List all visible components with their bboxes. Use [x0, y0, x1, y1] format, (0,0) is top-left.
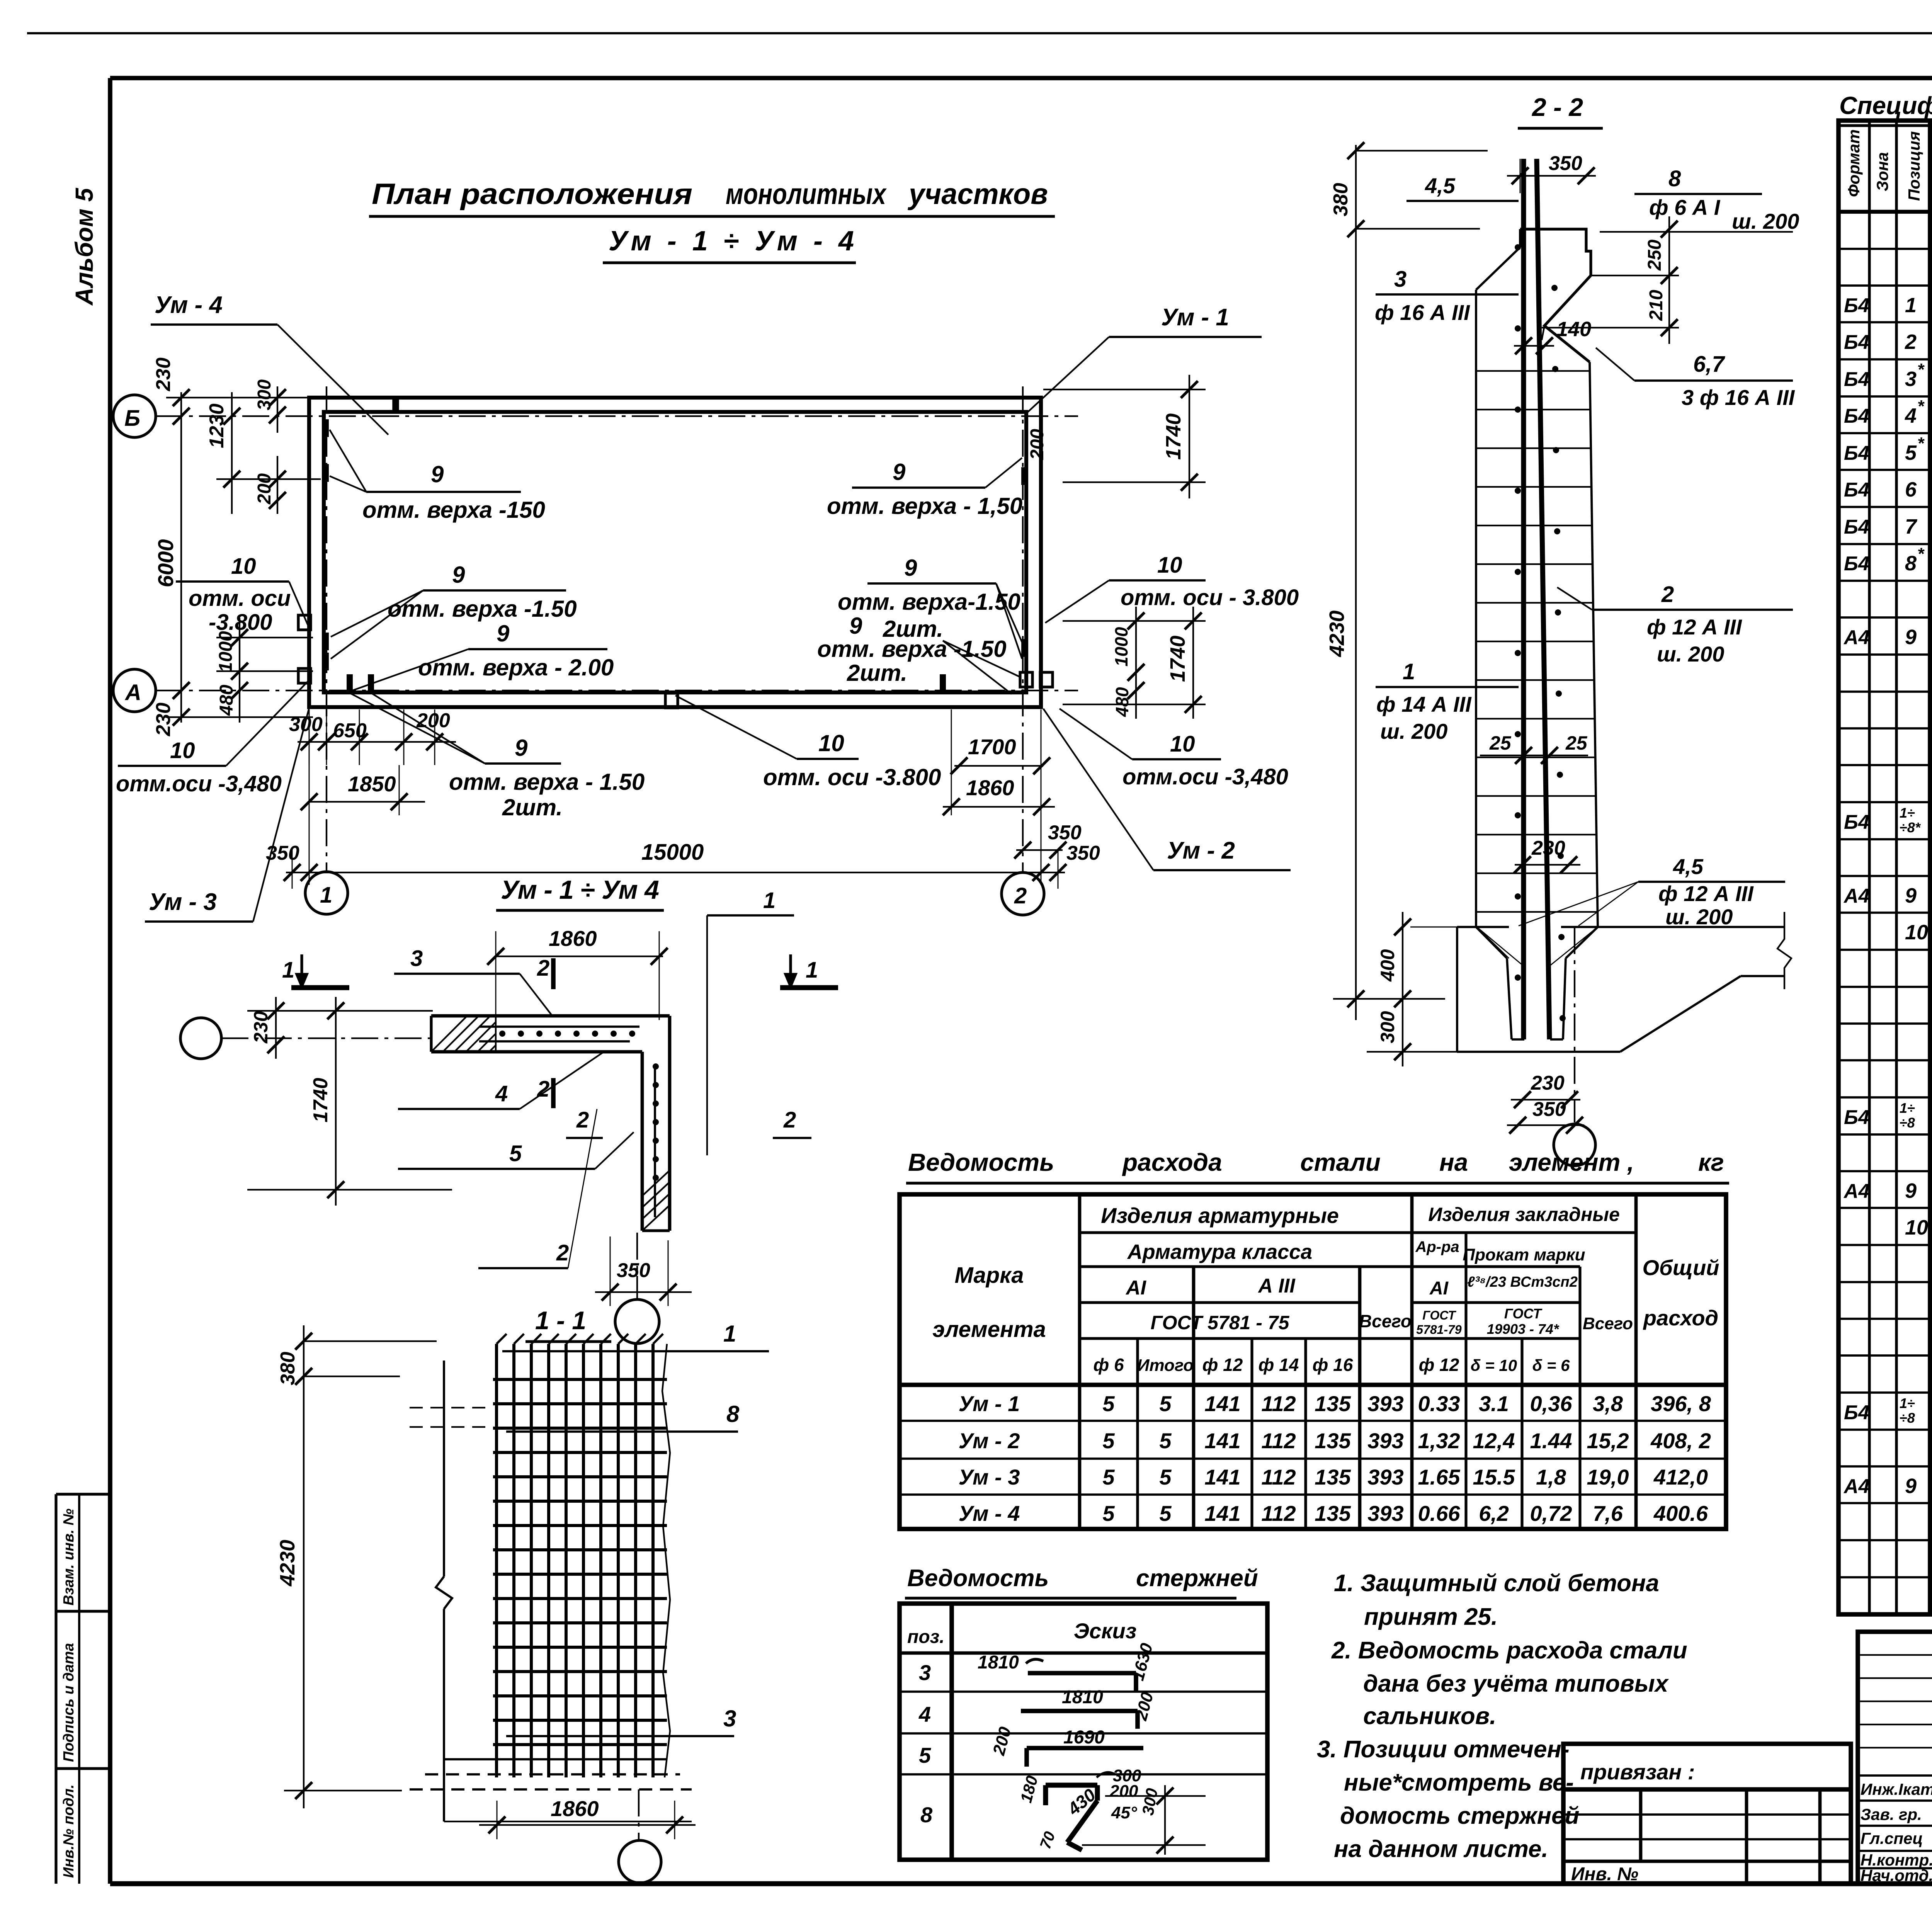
svg-text:Позиция: Позиция	[1905, 131, 1923, 201]
svg-text:9: 9	[849, 613, 862, 639]
svg-text:8: 8	[1668, 166, 1681, 191]
spec table frame	[1838, 121, 1932, 1614]
svg-text:2: 2	[576, 1107, 589, 1133]
svg-text:участков: участков	[907, 178, 1048, 211]
svg-text:Гл.спец: Гл.спец	[1861, 1829, 1923, 1847]
svg-text:ш. 200: ш. 200	[1732, 209, 1799, 233]
svg-text:400: 400	[1377, 949, 1398, 982]
svg-text:210: 210	[1646, 290, 1667, 321]
notes text	[1317, 1570, 1687, 1862]
svg-text:6: 6	[1905, 478, 1917, 501]
svg-text:3: 3	[723, 1706, 736, 1731]
s22 wall outline	[1476, 229, 1598, 927]
svg-text:230: 230	[152, 357, 175, 391]
svg-text:Формат: Формат	[1845, 129, 1863, 197]
svg-text:4: 4	[918, 1702, 931, 1726]
svg-text:ф 12 А III: ф 12 А III	[1647, 615, 1742, 639]
svg-text:Инв. №: Инв. №	[1571, 1864, 1638, 1884]
svg-text:1: 1	[282, 957, 294, 983]
svg-text:Нач.отд.: Нач.отд.	[1861, 1866, 1932, 1884]
svg-text:ГОСТ 5781 - 75: ГОСТ 5781 - 75	[1151, 1312, 1290, 1333]
svg-text:Всего: Всего	[1583, 1314, 1633, 1333]
svg-text:1230: 1230	[206, 403, 228, 448]
detail corner line 1 top right	[707, 914, 794, 917]
svg-text:Ум - 2: Ум - 2	[959, 1429, 1020, 1453]
svg-text:1: 1	[1905, 294, 1917, 317]
svg-text:141: 141	[1204, 1429, 1240, 1453]
svg-text:9: 9	[515, 735, 528, 761]
svg-text:Б: Б	[124, 406, 140, 431]
svg-text:141: 141	[1204, 1501, 1240, 1526]
svg-text:3.1: 3.1	[1479, 1391, 1509, 1416]
svg-text:на: на	[1439, 1148, 1468, 1176]
svg-text:План расположения: План расположения	[372, 178, 692, 211]
svg-text:3 ф 16 А III: 3 ф 16 А III	[1682, 385, 1795, 410]
svg-text:6000: 6000	[153, 539, 178, 587]
svg-text:ш. 200: ш. 200	[1657, 642, 1724, 666]
steel table frame	[900, 1194, 1726, 1529]
svg-text:отм. верха - 1.50: отм. верха - 1.50	[449, 769, 645, 795]
svg-text:1: 1	[806, 957, 818, 983]
detail axis circle	[180, 1018, 221, 1059]
svg-text:393: 393	[1367, 1391, 1403, 1416]
svg-text:принят 25.: принят 25.	[1364, 1604, 1498, 1630]
svg-text:А4: А4	[1843, 885, 1870, 907]
svg-text:ГОСТ: ГОСТ	[1422, 1308, 1456, 1322]
corner rebar marks	[323, 419, 329, 437]
svg-text:А4: А4	[1843, 1180, 1870, 1202]
svg-text:расход: расход	[1643, 1306, 1718, 1330]
svg-text:1.65: 1.65	[1418, 1465, 1461, 1489]
svg-text:Альбом 5: Альбом 5	[70, 187, 98, 306]
svg-text:10: 10	[231, 554, 256, 579]
svg-text:Инв.№ подл.: Инв.№ подл.	[61, 1784, 77, 1878]
svg-text:А4: А4	[1843, 1475, 1870, 1498]
svg-text:Подпись и дата: Подпись и дата	[61, 1643, 77, 1762]
embedded part marks	[298, 615, 311, 630]
detail dim 1740	[335, 997, 337, 1206]
svg-text:393: 393	[1367, 1501, 1403, 1526]
svg-text:2шт.: 2шт.	[847, 660, 907, 686]
plan inner wall rectangle	[324, 412, 1026, 692]
svg-text:1÷: 1÷	[1900, 1395, 1915, 1411]
svg-text:1. Защитный слой бетона: 1. Защитный слой бетона	[1334, 1570, 1659, 1597]
s11 bottom circle	[619, 1840, 661, 1883]
svg-text:дана без учёта типовых: дана без учёта типовых	[1363, 1670, 1669, 1697]
svg-text:15000: 15000	[641, 840, 704, 865]
svg-text:Марка: Марка	[954, 1263, 1024, 1288]
svg-text:ные*смотреть ве-: ные*смотреть ве-	[1344, 1769, 1574, 1796]
plan section cut mark on top wall	[392, 396, 399, 413]
axis line Б	[156, 415, 1078, 417]
s11 bottom lines	[410, 1759, 692, 1821]
svg-text:Эскиз: Эскиз	[1074, 1619, 1137, 1643]
svg-text:ш. 200: ш. 200	[1665, 905, 1733, 929]
svg-text:÷8*: ÷8*	[1900, 820, 1921, 835]
spec table verticals	[1869, 121, 1932, 1614]
svg-text:отм. верха -1.50: отм. верха -1.50	[388, 596, 577, 622]
svg-text:300: 300	[254, 379, 275, 410]
s22 horizontal bars	[1477, 371, 1597, 912]
svg-text:отм. верха - 1,50: отм. верха - 1,50	[827, 493, 1022, 519]
svg-text:3: 3	[919, 1660, 931, 1685]
svg-text:9: 9	[497, 621, 510, 646]
s11 label 1	[502, 1350, 769, 1352]
svg-text:2. Ведомость расхода с: 2. Ведомость расхода стали	[1331, 1637, 1687, 1664]
svg-text:Б4: Б4	[1844, 1106, 1869, 1129]
s11 dashed lines left	[410, 1407, 493, 1408]
svg-text:Ум - 1: Ум - 1	[1161, 304, 1229, 331]
svg-text:ГОСТ: ГОСТ	[1504, 1306, 1543, 1321]
svg-text:Ведомость: Ведомость	[908, 1148, 1054, 1176]
svg-text:112: 112	[1261, 1501, 1296, 1526]
svg-text:кг: кг	[1698, 1148, 1724, 1176]
svg-text:141: 141	[1204, 1391, 1240, 1416]
svg-text:стержней: стержней	[1136, 1565, 1258, 1592]
svg-text:Ведомость: Ведомость	[907, 1565, 1049, 1592]
svg-text:7: 7	[1905, 515, 1918, 538]
svg-text:1 - 1: 1 - 1	[535, 1306, 586, 1335]
privyazan box	[1563, 1744, 1851, 1884]
svg-text:4: 4	[495, 1081, 508, 1106]
svg-text:112: 112	[1261, 1465, 1296, 1489]
svg-text:домость стержней: домость стержней	[1340, 1803, 1579, 1829]
svg-text:Ум - 4: Ум - 4	[155, 292, 223, 318]
svg-text:1: 1	[723, 1321, 736, 1347]
s11 label 8	[506, 1430, 738, 1433]
svg-text:Прокат марки: Прокат марки	[1463, 1245, 1585, 1264]
svg-text:2: 2	[783, 1107, 796, 1133]
s11 mesh ragged right edge	[662, 1344, 670, 1777]
svg-text:Ум - 3: Ум - 3	[149, 889, 217, 915]
svg-text:350: 350	[1048, 821, 1082, 844]
svg-text:140: 140	[1556, 318, 1591, 341]
svg-text:1÷: 1÷	[1900, 805, 1915, 821]
svg-text:5: 5	[1159, 1429, 1172, 1453]
svg-text:1,8: 1,8	[1536, 1465, 1566, 1489]
svg-text:300: 300	[1377, 1011, 1398, 1043]
svg-text:8: 8	[920, 1803, 933, 1827]
svg-text:10: 10	[170, 738, 195, 763]
svg-text:1.44: 1.44	[1530, 1429, 1572, 1453]
axis bubble 1	[305, 872, 348, 914]
s22 rebar dots	[1515, 244, 1521, 250]
svg-text:5: 5	[509, 1141, 522, 1166]
svg-text:АI: АI	[1125, 1277, 1147, 1299]
s22 dims 400 300	[1367, 912, 1457, 1066]
svg-text:5: 5	[1102, 1501, 1115, 1526]
svg-text:1700: 1700	[968, 735, 1016, 759]
svg-text:1860: 1860	[551, 1796, 599, 1821]
svg-text:230: 230	[250, 1011, 272, 1044]
svg-text:монолитных: монолитных	[726, 178, 887, 211]
svg-text:25: 25	[1489, 732, 1512, 754]
detail dim 230	[275, 997, 277, 1059]
svg-text:380: 380	[1330, 183, 1352, 216]
svg-text:δ = 10: δ = 10	[1471, 1356, 1517, 1374]
svg-text:А4: А4	[1843, 626, 1870, 649]
svg-text:*: *	[1917, 397, 1925, 416]
axis line 2	[1022, 386, 1024, 872]
svg-text:9: 9	[1905, 884, 1917, 907]
detail section mark 1 left	[282, 954, 349, 988]
svg-text:Зона: Зона	[1873, 152, 1891, 191]
svg-text:350: 350	[1066, 842, 1100, 864]
svg-text:4,5: 4,5	[1425, 173, 1456, 198]
svg-text:Ум - 1 ÷ Ум - 4: Ум - 1 ÷ Ум - 4	[609, 226, 854, 257]
svg-text:отм. оси -3.800: отм. оси -3.800	[763, 764, 941, 790]
svg-text:2: 2	[1661, 582, 1674, 607]
s11 label 3	[506, 1735, 734, 1737]
svg-text:45°: 45°	[1111, 1803, 1137, 1822]
svg-text:393: 393	[1367, 1429, 1403, 1453]
s11 left dim	[276, 1325, 437, 1808]
axis line 1	[326, 386, 327, 872]
s11 dim 1860	[479, 1824, 696, 1826]
s22 left dim line	[1325, 142, 1488, 1020]
svg-text:6,2: 6,2	[1479, 1501, 1509, 1526]
svg-text:Зав. гр.: Зав. гр.	[1861, 1805, 1922, 1823]
svg-text:1÷: 1÷	[1900, 1100, 1915, 1116]
svg-text:Инж.Iкат: Инж.Iкат	[1861, 1780, 1932, 1798]
svg-text:15.5: 15.5	[1473, 1465, 1515, 1489]
svg-text:элемента: элемента	[932, 1317, 1046, 1342]
svg-text:9: 9	[1905, 1179, 1917, 1202]
svg-text:2шт.: 2шт.	[502, 794, 563, 820]
right dim 1740 lower	[1063, 607, 1206, 719]
detail dim 1860	[496, 956, 663, 957]
bottom dim cluster left	[289, 709, 456, 815]
svg-text:отм. верха-1.50: отм. верха-1.50	[838, 589, 1020, 615]
svg-text:8: 8	[1905, 552, 1917, 575]
svg-text:141: 141	[1204, 1465, 1240, 1489]
svg-text:10: 10	[818, 730, 844, 756]
svg-text:стали: стали	[1300, 1148, 1381, 1176]
right dim 1740 upper	[1027, 375, 1206, 498]
svg-text:7,6: 7,6	[1593, 1501, 1623, 1526]
svg-text:412,0: 412,0	[1653, 1465, 1708, 1489]
svg-text:135: 135	[1315, 1391, 1351, 1416]
svg-text:отм. оси: отм. оси	[189, 586, 291, 611]
svg-text:19,0: 19,0	[1587, 1465, 1629, 1489]
axis bubble Б	[113, 395, 156, 437]
title block frame	[1858, 1632, 1932, 1884]
svg-text:8: 8	[726, 1401, 740, 1427]
svg-text:5: 5	[1159, 1391, 1172, 1416]
title block names	[1861, 1780, 1932, 1885]
svg-text:1740: 1740	[310, 1078, 332, 1122]
svg-text:1860: 1860	[549, 926, 597, 951]
s11 wall edge line with break	[436, 1361, 452, 1821]
svg-text:6,7: 6,7	[1693, 352, 1725, 377]
svg-text:230: 230	[1531, 837, 1565, 859]
s11 mesh	[493, 1334, 667, 1777]
s22 dim 250 210	[1542, 216, 1679, 344]
svg-text:4: 4	[1905, 404, 1917, 427]
svg-text:ф 12: ф 12	[1202, 1355, 1243, 1375]
svg-text:элемент ,: элемент ,	[1509, 1148, 1634, 1176]
svg-text:10: 10	[1905, 1216, 1928, 1239]
svg-text:3: 3	[410, 946, 423, 971]
svg-text:200: 200	[254, 473, 275, 505]
svg-text:200: 200	[1109, 1782, 1138, 1801]
svg-text:ф 6: ф 6	[1093, 1355, 1124, 1375]
svg-text:поз.: поз.	[907, 1627, 944, 1647]
left margin stamp column	[56, 1494, 110, 1884]
svg-text:112: 112	[1261, 1429, 1296, 1453]
svg-text:350: 350	[1549, 152, 1582, 175]
svg-text:135: 135	[1315, 1465, 1351, 1489]
svg-text:230: 230	[1531, 1072, 1565, 1094]
detail hatch bottom end	[642, 1170, 670, 1231]
detail wall horizontal strip	[431, 1016, 670, 1052]
svg-text:9: 9	[904, 555, 917, 581]
svg-text:Изделия закладные: Изделия закладные	[1428, 1204, 1620, 1225]
svg-text:ш. 200: ш. 200	[1380, 719, 1447, 743]
s22 centerline	[1574, 927, 1575, 1122]
detail bottom section circle	[615, 1299, 659, 1344]
svg-text:300: 300	[289, 713, 323, 736]
svg-text:400.6: 400.6	[1653, 1501, 1708, 1526]
svg-text:Итого: Итого	[1137, 1356, 1194, 1375]
detail hatch left end	[431, 1016, 496, 1052]
svg-text:10: 10	[1170, 731, 1195, 757]
svg-text:расхода: расхода	[1122, 1148, 1222, 1176]
svg-text:4230: 4230	[1325, 611, 1349, 657]
steel table verticals	[1080, 1194, 1636, 1529]
spec table header	[1838, 129, 1932, 212]
svg-text:Б4: Б4	[1844, 331, 1869, 354]
svg-text:112: 112	[1261, 1391, 1296, 1416]
left dim chain	[152, 357, 321, 736]
outer border top	[27, 32, 1932, 34]
svg-text:5: 5	[1102, 1465, 1115, 1489]
svg-text:380: 380	[277, 1352, 299, 1385]
detail rebar dots	[499, 1031, 505, 1037]
svg-text:19903 - 74*: 19903 - 74*	[1487, 1321, 1560, 1337]
svg-text:1,32: 1,32	[1418, 1429, 1460, 1453]
bottom dim cluster right	[943, 709, 1082, 859]
svg-text:отм.оси -3,480: отм.оси -3,480	[1122, 764, 1288, 789]
svg-text:ф 16 А III: ф 16 А III	[1375, 300, 1470, 325]
axis bubble 2	[1002, 872, 1044, 915]
svg-text:200: 200	[416, 709, 450, 732]
svg-text:480: 480	[1112, 687, 1132, 717]
svg-text:2: 2	[537, 956, 549, 981]
svg-text:Б4: Б4	[1844, 294, 1869, 317]
svg-text:Всего: Всего	[1359, 1311, 1412, 1331]
svg-text:5: 5	[1102, 1391, 1115, 1416]
svg-text:1: 1	[320, 883, 332, 908]
svg-text:10: 10	[1157, 553, 1182, 578]
svg-text:1740: 1740	[1166, 636, 1189, 682]
svg-text:2: 2	[1905, 330, 1917, 354]
svg-text:25: 25	[1565, 732, 1588, 754]
svg-text:9: 9	[1905, 626, 1917, 649]
spec table row lines	[1838, 249, 1932, 1577]
svg-text:÷8: ÷8	[1900, 1410, 1915, 1426]
svg-text:ф 14: ф 14	[1259, 1355, 1299, 1375]
axis bubble А	[113, 669, 156, 712]
svg-text:1: 1	[1403, 659, 1415, 684]
svg-text:Б4: Б4	[1844, 1401, 1869, 1424]
svg-text:*: *	[1917, 434, 1925, 453]
svg-text:230: 230	[152, 702, 175, 736]
svg-text:9: 9	[893, 459, 906, 485]
svg-text:Ар-ра: Ар-ра	[1415, 1238, 1459, 1255]
detail section mark 1 right	[780, 954, 838, 988]
s22 footing	[1457, 912, 1791, 1052]
svg-text:5: 5	[1905, 441, 1917, 464]
svg-text:135: 135	[1315, 1429, 1351, 1453]
svg-text:Б4: Б4	[1844, 479, 1869, 501]
svg-text:Б4: Б4	[1844, 405, 1869, 427]
svg-text:0,72: 0,72	[1530, 1501, 1572, 1526]
svg-text:3. Позиции отмечен-: 3. Позиции отмечен-	[1317, 1736, 1570, 1763]
svg-text:Ум - 3: Ум - 3	[959, 1465, 1020, 1489]
svg-text:Общий: Общий	[1642, 1255, 1719, 1280]
svg-text:на данном листе.: на данном листе.	[1334, 1836, 1548, 1862]
svg-text:АI: АI	[1429, 1278, 1449, 1299]
svg-text:1860: 1860	[966, 776, 1014, 800]
svg-text:0,36: 0,36	[1530, 1391, 1573, 1416]
svg-text:0.33: 0.33	[1418, 1391, 1460, 1416]
svg-text:Ум - 2: Ум - 2	[1167, 837, 1235, 864]
svg-text:5781-79: 5781-79	[1416, 1323, 1462, 1337]
svg-text:2: 2	[1014, 883, 1027, 908]
svg-text:ф 16: ф 16	[1313, 1355, 1353, 1375]
svg-text:÷8: ÷8	[1900, 1115, 1915, 1131]
svg-text:5: 5	[1159, 1501, 1172, 1526]
svg-text:1740: 1740	[1162, 413, 1185, 460]
detail wall vertical strip	[642, 1016, 670, 1231]
svg-text:393: 393	[1367, 1465, 1403, 1489]
spec table contents	[1843, 218, 1932, 1608]
svg-text:Ум - 1 ÷ Ум 4: Ум - 1 ÷ Ум 4	[501, 875, 659, 905]
svg-text:1: 1	[763, 888, 776, 913]
svg-text:396, 8: 396, 8	[1651, 1391, 1711, 1416]
rods table frame	[900, 1604, 1267, 1860]
svg-text:Изделия арматурные: Изделия арматурные	[1101, 1203, 1339, 1228]
svg-text:Ум - 1: Ум - 1	[959, 1391, 1020, 1416]
svg-text:*: *	[1917, 544, 1925, 563]
svg-text:1810: 1810	[1062, 1687, 1103, 1708]
svg-text:12,4: 12,4	[1473, 1429, 1515, 1453]
svg-text:А III: А III	[1257, 1275, 1296, 1297]
svg-text:3: 3	[1394, 267, 1406, 292]
svg-text:4230: 4230	[276, 1540, 299, 1587]
svg-text:Б4: Б4	[1844, 442, 1869, 464]
axis line А	[156, 690, 1078, 691]
steel table data rows	[959, 1391, 1711, 1526]
svg-text:135: 135	[1315, 1501, 1351, 1526]
overall dim 15000	[266, 709, 1100, 889]
svg-text:350: 350	[1532, 1098, 1566, 1121]
svg-text:отм. верха - 2.00: отм. верха - 2.00	[418, 655, 614, 680]
svg-text:480: 480	[216, 685, 237, 716]
svg-text:сальников.: сальников.	[1363, 1703, 1496, 1730]
svg-text:Взам. инв. №: Взам. инв. №	[61, 1509, 77, 1605]
svg-text:отм. верха -150: отм. верха -150	[362, 497, 545, 523]
svg-text:Б4: Б4	[1844, 553, 1869, 575]
steel table header texts	[932, 1203, 1719, 1375]
plan outer wall rectangle	[309, 398, 1041, 707]
svg-text:1850: 1850	[348, 772, 396, 796]
svg-text:200: 200	[1027, 429, 1048, 460]
svg-text:ф 6 А I: ф 6 А I	[1649, 195, 1721, 219]
svg-text:А: А	[124, 680, 141, 705]
svg-text:3: 3	[1905, 367, 1917, 391]
